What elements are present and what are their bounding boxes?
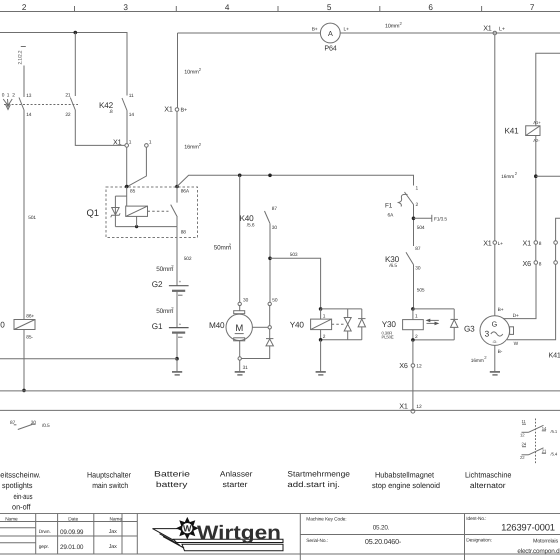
svg-text:A: A <box>328 29 333 38</box>
svg-text:/6.5: /6.5 <box>389 263 397 269</box>
wire 501 S01 to coil <box>24 110 36 320</box>
svg-text:0: 0 <box>0 321 5 330</box>
wire X1 L+ drop to G3 <box>494 35 496 241</box>
svg-text:Ident-No.:: Ident-No.: <box>466 516 486 522</box>
switch S01 actuator <box>2 92 15 109</box>
svg-text:Motorrelais: Motorrelais <box>533 538 558 544</box>
svg-text:F1: F1 <box>385 202 393 209</box>
svg-text:Name: Name <box>5 516 18 522</box>
svg-text:X1: X1 <box>113 138 122 147</box>
svg-text:86+: 86+ <box>26 314 34 320</box>
wire top feed right section <box>178 32 321 34</box>
svg-text:8: 8 <box>539 262 542 268</box>
switch S01 mechanical dashed link <box>4 104 78 106</box>
wire G3 B+ feed <box>494 244 496 315</box>
wire Q1 bottom bus <box>115 226 177 228</box>
wire M40 solenoid node <box>269 306 271 326</box>
wire K40 to starter 50 <box>269 224 271 303</box>
svg-text:X1: X1 <box>523 239 532 248</box>
svg-text:10mm: 10mm <box>385 24 400 30</box>
svg-text:spotlights: spotlights <box>2 481 33 490</box>
terminal X1:12 <box>399 401 422 413</box>
ground M40 <box>235 360 245 375</box>
wire K41 supply stub <box>536 53 560 126</box>
junction 504 branch <box>412 217 416 221</box>
wire right terminal riser <box>556 218 560 240</box>
wire minus bus line A <box>0 358 177 360</box>
svg-text:30: 30 <box>243 298 249 304</box>
svg-text:Lichtmaschine: Lichtmaschine <box>465 470 511 479</box>
svg-text:main switch: main switch <box>92 481 128 490</box>
svg-text:1: 1 <box>149 139 152 145</box>
diode M40 <box>266 329 273 346</box>
svg-text:12: 12 <box>416 363 422 369</box>
svg-text:2: 2 <box>415 334 418 340</box>
wire top-left supply <box>0 33 127 96</box>
diode Y30 <box>451 309 458 340</box>
svg-text:L+: L+ <box>344 27 350 33</box>
svg-text:05.20.0460-: 05.20.0460- <box>365 537 402 546</box>
node 2.1/2.2 off-page connector <box>18 47 26 65</box>
wire Q1 85 branch <box>126 187 128 207</box>
wire G3 B- ground <box>471 345 500 375</box>
svg-text:Jax: Jax <box>109 529 117 535</box>
contact S01 13/14 <box>19 93 32 118</box>
svg-text:K40: K40 <box>240 214 255 223</box>
svg-text:6A: 6A <box>388 212 395 218</box>
svg-text:M40: M40 <box>209 321 225 330</box>
svg-text:Name: Name <box>110 516 123 522</box>
svg-text:16mm: 16mm <box>471 358 484 364</box>
svg-text:30: 30 <box>272 225 278 231</box>
contact mirror K41 <box>520 419 558 465</box>
svg-text:F1/3.5: F1/3.5 <box>434 216 447 222</box>
wire G2 to G1 <box>176 291 178 328</box>
svg-text:W: W <box>183 524 192 534</box>
svg-text:505: 505 <box>417 287 425 293</box>
terminal X1:1 b <box>145 139 152 147</box>
wire F1 to K30 <box>413 205 415 247</box>
title block grid <box>0 514 560 560</box>
svg-text:85: 85 <box>130 189 136 195</box>
svg-text:K41: K41 <box>549 350 560 359</box>
contact K30 87/30 <box>385 246 421 271</box>
bus line B <box>0 390 560 392</box>
svg-text:16mm: 16mm <box>501 174 514 180</box>
svg-text:1: 1 <box>7 92 10 98</box>
svg-text:14: 14 <box>129 112 135 118</box>
legend stop engine solenoid <box>372 470 440 490</box>
contact legend 87/30 <box>10 420 50 430</box>
mechanical link Q1 dashed <box>148 210 169 212</box>
terminal M40:30 <box>238 298 249 306</box>
legend main switch <box>87 470 131 490</box>
svg-text:/5.6: /5.6 <box>247 222 255 228</box>
svg-text:PL50E: PL50E <box>382 335 394 340</box>
junction rail to K40 <box>268 174 272 178</box>
svg-text:3: 3 <box>123 3 128 12</box>
svg-text:X1: X1 <box>399 401 408 410</box>
wire rail to M40 30 <box>239 175 241 302</box>
svg-text:88: 88 <box>181 230 187 236</box>
solenoid Y30 stop engine <box>382 307 424 340</box>
svg-text:0: 0 <box>2 92 5 98</box>
svg-text:Machine Key Code:: Machine Key Code: <box>306 516 346 522</box>
svg-text:on-off: on-off <box>12 502 31 511</box>
svg-text:Wirtgen: Wirtgen <box>197 522 281 544</box>
svg-text:L+: L+ <box>498 241 504 247</box>
wire 503 to Y40 <box>270 252 321 307</box>
svg-text:05.20.: 05.20. <box>373 524 390 531</box>
svg-text:X6: X6 <box>523 259 532 268</box>
wire G1 to minus bus <box>176 333 178 359</box>
wire P64 to right edge <box>340 32 560 34</box>
svg-text:Drwn.: Drwn. <box>39 529 51 535</box>
title text personnel <box>5 516 122 551</box>
junction battery minus <box>175 357 179 361</box>
svg-text:A1+: A1+ <box>533 120 541 125</box>
relay coil K41 <box>505 120 542 143</box>
terminal X1:8 b <box>554 241 558 245</box>
relay contact K42 11/14 <box>99 93 134 118</box>
node F1/3.5 off-page <box>414 215 448 223</box>
suppressor Y40 bidirectional <box>344 309 351 340</box>
title text ident <box>466 516 560 555</box>
terminal M40:50 <box>268 298 278 306</box>
svg-text:Designation:: Designation: <box>466 537 491 543</box>
fuse F1 thermal breaker <box>385 186 419 219</box>
wire S01 pole1 top <box>23 66 25 98</box>
svg-text:X1: X1 <box>483 239 492 248</box>
svg-text:503: 503 <box>290 252 298 258</box>
terminal X6:8 <box>523 259 542 268</box>
svg-text:14: 14 <box>542 426 547 431</box>
ground Y40 <box>316 340 326 375</box>
wire diode loop to 31 <box>241 346 269 359</box>
terminal X1:L+ mid <box>483 239 503 248</box>
junction rail to M40 <box>238 174 242 178</box>
logo Wirtgen <box>153 517 284 551</box>
wire B+ to Q1 86A <box>176 111 178 186</box>
svg-text:electr.compon.d: electr.compon.d <box>517 548 560 555</box>
svg-text:Date: Date <box>68 516 78 522</box>
wire G3 D+ to K41 <box>504 264 537 318</box>
logo gear wheel <box>176 517 199 540</box>
legend starter <box>220 469 253 489</box>
svg-text:09.09.99: 09.09.99 <box>60 529 84 536</box>
svg-text:126397-0001: 126397-0001 <box>501 522 555 533</box>
relay Q1 enclosure <box>87 187 198 238</box>
svg-text:87: 87 <box>415 246 421 252</box>
wire Y40 suppression loop <box>321 308 362 310</box>
bus line C <box>0 409 560 411</box>
wire X1:1b jog to Q1 pin 85 <box>128 147 146 186</box>
svg-text:P64: P64 <box>324 44 336 53</box>
svg-text:Hubabstellmagnet: Hubabstellmagnet <box>375 470 435 479</box>
svg-text:22: 22 <box>520 455 525 460</box>
svg-text:2: 2 <box>323 334 326 340</box>
svg-text:2: 2 <box>22 3 27 12</box>
legend add start injection <box>287 469 350 489</box>
svg-text:13: 13 <box>26 93 32 99</box>
svg-text:1: 1 <box>323 313 326 319</box>
svg-text:Anlasser: Anlasser <box>220 469 253 478</box>
svg-text:Q1: Q1 <box>87 208 99 219</box>
svg-text:16mm: 16mm <box>184 145 199 151</box>
svg-text:502: 502 <box>184 256 192 262</box>
actuator arrows Y30 <box>426 319 440 326</box>
legend battery <box>154 469 190 489</box>
svg-text:K30: K30 <box>385 255 400 264</box>
svg-text:21: 21 <box>542 448 547 453</box>
wire Y30 to X6:12 <box>412 340 414 364</box>
wire supply rail <box>177 175 414 186</box>
wire Y30 suppression loop <box>413 308 454 310</box>
svg-text:starter: starter <box>223 480 248 489</box>
svg-text:X1: X1 <box>483 24 492 33</box>
svg-text:24: 24 <box>522 442 527 447</box>
terminal M40:31 <box>238 357 248 371</box>
svg-text:504: 504 <box>417 225 425 231</box>
svg-text:501: 501 <box>28 215 36 221</box>
svg-text:29.01.00: 29.01.00 <box>60 544 84 551</box>
svg-text:1: 1 <box>129 139 132 145</box>
junction top-left <box>74 31 78 35</box>
wire S01 pole2 to terminal X1:1 <box>75 110 125 145</box>
svg-text:G: G <box>492 320 498 329</box>
battery G2 <box>152 279 189 295</box>
solenoid valve Y40 <box>290 307 332 340</box>
svg-text:87: 87 <box>272 206 278 212</box>
svg-text:L+: L+ <box>499 27 505 33</box>
svg-text:K42: K42 <box>99 101 114 110</box>
svg-text:2: 2 <box>12 92 15 98</box>
svg-text:30: 30 <box>415 265 421 271</box>
terminal X6:8 b <box>554 261 558 265</box>
wire X6:12 to X1:12 <box>412 367 414 409</box>
svg-text:14: 14 <box>26 112 32 118</box>
svg-text:Jax: Jax <box>109 544 117 550</box>
node 85 <box>125 185 129 189</box>
wire M40 to 31 <box>239 341 241 357</box>
svg-text:G1: G1 <box>152 322 163 331</box>
svg-text:X6: X6 <box>399 361 408 370</box>
svg-text:B+: B+ <box>312 27 318 33</box>
svg-text:B-: B- <box>498 349 503 355</box>
svg-text:7: 7 <box>530 3 535 12</box>
wire K41 A2 down <box>535 136 537 241</box>
svg-text:2.1/2.2: 2.1/2.2 <box>18 50 24 64</box>
svg-text:Startmehrmenge: Startmehrmenge <box>287 469 350 478</box>
svg-text:11: 11 <box>129 93 134 99</box>
svg-text:ein-aus: ein-aus <box>14 492 33 501</box>
svg-text:4: 4 <box>225 3 230 12</box>
wire X1 B+ drop <box>177 33 179 108</box>
svg-text:alternator: alternator <box>470 481 506 490</box>
svg-text:add.start inj.: add.start inj. <box>287 480 340 489</box>
svg-text:X1: X1 <box>164 104 173 113</box>
svg-text:-D-: -D- <box>492 340 498 344</box>
svg-text:.8: .8 <box>109 109 113 115</box>
svg-text:8: 8 <box>539 241 542 247</box>
ground battery <box>172 359 182 375</box>
contact K40 87/30 <box>240 206 278 231</box>
svg-text:Y40: Y40 <box>290 320 305 329</box>
svg-text:1: 1 <box>416 186 419 192</box>
svg-text:12: 12 <box>416 404 422 410</box>
relay coil Q1 <box>126 206 148 216</box>
svg-text:G2: G2 <box>152 280 163 289</box>
svg-text:B+: B+ <box>498 307 504 313</box>
svg-text:/5.4: /5.4 <box>551 452 558 457</box>
svg-text:A2-: A2- <box>533 138 540 143</box>
svg-text:/5.1: /5.1 <box>551 429 558 434</box>
svg-text:6: 6 <box>428 3 433 12</box>
contact S01 21/22 <box>65 93 75 119</box>
svg-text:Y30: Y30 <box>382 320 397 329</box>
svg-text:10mm: 10mm <box>184 70 199 76</box>
alternator G3 <box>464 307 519 355</box>
diode Y40 <box>358 309 365 340</box>
svg-text:K41: K41 <box>505 126 520 135</box>
diode Q1 suppressor zener <box>111 208 120 218</box>
junction on bus B <box>22 389 26 393</box>
wire 502 Q1 to battery <box>177 227 192 286</box>
svg-text:Serial-No.:: Serial-No.: <box>306 538 328 544</box>
svg-text:B+: B+ <box>181 107 187 113</box>
wire X1:1a down to Q1 pin 85 <box>126 147 128 186</box>
node 86A <box>175 185 179 189</box>
legend alternator <box>465 470 511 490</box>
svg-text:22: 22 <box>65 112 71 118</box>
terminal X1:8 <box>523 239 542 248</box>
junction coil bottom <box>135 225 138 228</box>
svg-text:M: M <box>235 323 243 334</box>
svg-text:gepr.: gepr. <box>39 545 49 550</box>
svg-text:eitsscheinw.: eitsscheinw. <box>0 470 40 479</box>
svg-text:battery: battery <box>156 480 188 489</box>
mechanical link Y40 dashed <box>332 323 344 325</box>
svg-text:2: 2 <box>416 202 419 208</box>
contact Q1 <box>171 187 178 227</box>
svg-text:3: 3 <box>485 330 490 339</box>
svg-text:Hauptschalter: Hauptschalter <box>87 470 131 479</box>
terminal X1:1 a <box>113 138 132 148</box>
battery G1 <box>152 321 189 337</box>
junction 16mm branch <box>534 174 538 178</box>
svg-text:5: 5 <box>327 3 332 12</box>
column ruler <box>0 3 560 12</box>
svg-text:12: 12 <box>520 432 525 437</box>
wire junction to S01 pole2 <box>74 33 76 97</box>
svg-text:1: 1 <box>415 313 418 319</box>
wire 505 K30 to Y30 <box>414 265 425 308</box>
title text machine code <box>306 516 402 546</box>
ammeter P64 <box>312 23 349 52</box>
motor M40 starter <box>209 306 252 341</box>
svg-text:stop engine solenoid: stop engine solenoid <box>372 481 440 490</box>
legend spotlights <box>0 470 40 511</box>
junction 503 branch <box>268 257 272 261</box>
drawing frame bottom <box>0 513 560 515</box>
coil K.0 left edge <box>0 314 35 341</box>
svg-text:86A: 86A <box>181 189 190 195</box>
svg-text:31: 31 <box>243 365 249 371</box>
wire G3 W to right <box>507 264 556 339</box>
terminal X6:12 <box>399 361 422 370</box>
wire K42 contact to X1:1 <box>126 111 128 144</box>
svg-text:85-: 85- <box>26 334 33 340</box>
svg-text:Batterie: Batterie <box>154 469 190 478</box>
svg-text:/0.5: /0.5 <box>42 423 50 429</box>
svg-text:W: W <box>514 341 519 347</box>
svg-text:50: 50 <box>272 298 278 304</box>
terminal X1:B+ <box>164 104 187 113</box>
terminal X1:L+ top <box>483 24 505 35</box>
svg-text:G3: G3 <box>464 324 475 333</box>
wire coil to bus B <box>23 330 25 391</box>
wire between terminals <box>535 244 537 260</box>
